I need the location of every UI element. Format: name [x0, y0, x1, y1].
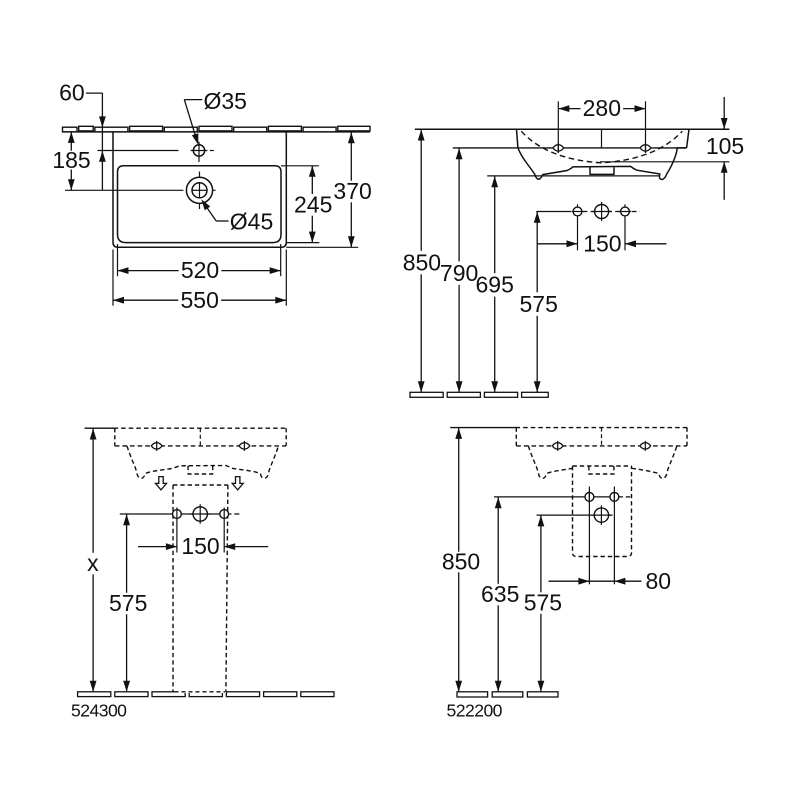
apron dashed outline left: [528, 446, 572, 478]
insert arrow right: [232, 477, 243, 490]
dim 635: [497, 497, 499, 584]
dim 850: [420, 129, 422, 251]
svg-text:80: 80: [646, 568, 672, 594]
siphon cover dashed: [573, 466, 632, 557]
dim 150 lower-left: [176, 521, 178, 553]
center fixing hole: [193, 507, 207, 521]
svg-text:520: 520: [181, 257, 219, 283]
tap hole center-lines: [98, 150, 179, 152]
basin body outline: [517, 129, 518, 148]
floor hatch bottom-left: [78, 692, 111, 697]
svg-text:575: 575: [109, 590, 147, 616]
center fixing hole: [594, 508, 608, 522]
dim x: [92, 428, 94, 553]
wall-mount hole right: [640, 143, 651, 153]
bowl depth reference line 105: [600, 161, 729, 163]
svg-text:185: 185: [52, 147, 90, 173]
dim 80: [549, 580, 590, 582]
leader Ø35: [184, 99, 202, 101]
leader Ø45: [203, 202, 216, 221]
right fixing hole: [621, 207, 630, 216]
dim 790: [458, 148, 460, 262]
dim 245: [281, 165, 319, 167]
dim 105: [723, 97, 725, 129]
basin dashed top: [114, 427, 287, 429]
wall hatch baseline: [63, 131, 371, 133]
basin dashed right edge: [285, 428, 287, 446]
drain center-lines: [65, 189, 183, 191]
svg-text:850: 850: [442, 548, 480, 574]
basin dashed right edge: [686, 428, 688, 446]
feet reference line 695: [487, 175, 660, 177]
svg-text:524300: 524300: [71, 701, 127, 721]
pedestal dashed right side: [226, 485, 228, 692]
wall hatch planks: [63, 127, 78, 132]
svg-text:522200: 522200: [447, 700, 503, 720]
svg-text:105: 105: [706, 133, 744, 159]
svg-text:370: 370: [333, 178, 371, 204]
svg-text:695: 695: [476, 272, 514, 298]
floor hatch top-right: [410, 392, 443, 397]
dim 575 lower-left: [126, 514, 128, 593]
dim 520: [117, 244, 119, 276]
svg-text:Ø45: Ø45: [230, 208, 273, 234]
overflow box dashed: [589, 466, 614, 474]
hidden bowl curve: [521, 131, 682, 163]
basin dashed top: [516, 427, 688, 429]
svg-text:x: x: [87, 550, 99, 576]
svg-text:575: 575: [520, 291, 558, 317]
top line solid part: [450, 427, 517, 429]
wall-mount hole left: [553, 143, 564, 153]
apron dashed outline right: [632, 446, 677, 478]
dim 575 lower-right: [540, 515, 542, 592]
svg-text:575: 575: [524, 590, 562, 616]
basin underside line: [453, 147, 687, 149]
basin outer rim rectangle: [113, 132, 286, 247]
floor hatch bottom-right: [457, 692, 488, 697]
pedestal dashed top: [173, 484, 228, 486]
left fixing hole: [173, 510, 182, 519]
basin inner bowl rounded rectangle: [118, 166, 282, 243]
basin dashed left edge: [515, 428, 517, 446]
wall-mount hole right: [640, 441, 651, 451]
dim 695: [494, 176, 496, 273]
basin top line: [415, 128, 730, 130]
basin dashed underside: [516, 445, 687, 447]
center fixing hole: [595, 205, 609, 219]
fixing line: [120, 513, 232, 515]
dim 280: [557, 101, 559, 153]
left fixing hole: [573, 207, 582, 216]
upper fixing pair line: [494, 496, 623, 498]
floor dashed under pedestal: [175, 691, 225, 693]
dim 850 lower: [458, 428, 460, 552]
upper fixing hole left: [585, 493, 594, 502]
svg-text:790: 790: [440, 260, 478, 286]
basin dashed underside: [115, 445, 286, 447]
dim 80 extension lines: [588, 487, 590, 585]
center tick dashed: [199, 428, 201, 446]
svg-text:60: 60: [59, 80, 85, 106]
svg-text:245: 245: [294, 191, 332, 217]
right fixing hole: [220, 510, 229, 519]
dim 370: [286, 246, 358, 248]
dim 575 upper-right: [536, 212, 538, 293]
center hole line: [537, 514, 595, 516]
dim 150 upper: [537, 243, 577, 245]
apron dashed outline: [127, 446, 279, 478]
pedestal dashed left side: [172, 485, 174, 692]
svg-text:850: 850: [403, 249, 441, 275]
insert arrow left: [156, 477, 167, 490]
dim 185: [70, 132, 72, 151]
center tick: [601, 129, 603, 148]
wall-mount hole left: [151, 441, 162, 451]
svg-text:550: 550: [181, 287, 219, 313]
dim 550: [112, 250, 114, 306]
center tick dashed: [601, 428, 603, 446]
svg-text:280: 280: [583, 95, 621, 121]
drain hole Ø45: [186, 177, 212, 203]
tap hole Ø35: [193, 145, 204, 156]
basin dashed left edge: [114, 428, 116, 446]
wall-mount hole right: [239, 441, 250, 451]
svg-text:Ø35: Ø35: [204, 88, 247, 114]
svg-text:150: 150: [583, 230, 621, 256]
svg-text:150: 150: [181, 533, 219, 559]
wall-mount hole left: [552, 441, 563, 451]
svg-text:635: 635: [481, 581, 519, 607]
upper fixing hole right: [610, 493, 619, 502]
top line solid part: [85, 427, 116, 429]
fixing holes row: [536, 211, 566, 213]
